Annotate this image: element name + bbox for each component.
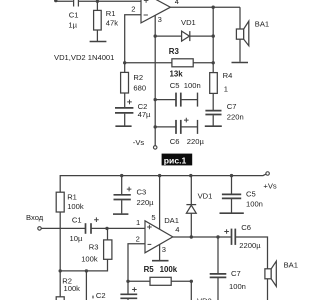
svg-text:220n: 220n: [227, 112, 244, 121]
resistor R3 13k (top circuit): [169, 47, 193, 78]
ground under DA1 pin3: [152, 260, 169, 262]
svg-text:4: 4: [175, 0, 179, 6]
diode VD1 (top circuit): [181, 18, 196, 41]
diode VD1 (bottom circuit): [186, 176, 212, 237]
wire branch diode rail to R3 rail: [212, 36, 214, 63]
wire output branch down to diode rail: [212, 7, 214, 36]
wire input lead to C1: [41, 227, 85, 229]
svg-text:100n: 100n: [229, 282, 246, 291]
svg-text:1µ: 1µ: [68, 21, 77, 30]
diode VD2 lead (cut off): [191, 281, 211, 300]
resistor R2 680 (top circuit): [121, 63, 146, 93]
capacitor C2 47u (top circuit): [115, 93, 151, 126]
wire speaker bottom lead: [267, 279, 269, 300]
resistor R2 100k (bottom circuit): [56, 277, 80, 300]
wire branch down from bias wire: [85, 271, 87, 300]
wire -Vs column lower: [154, 127, 156, 146]
wire R1 top lead: [96, 1, 98, 10]
node VD1 rail junction: [189, 174, 192, 177]
ground under C3: [113, 213, 128, 215]
svg-text:C5: C5: [170, 81, 180, 90]
power terminal -Vs: [133, 138, 157, 149]
node R2 top junction: [59, 269, 62, 272]
wire pin3 lead down: [154, 15, 156, 36]
node C6 left junction: [154, 125, 157, 128]
svg-text:VD1: VD1: [198, 191, 213, 200]
wire R3 rail left lead: [125, 62, 172, 64]
svg-text:рис.1: рис.1: [164, 155, 187, 165]
svg-text:1: 1: [224, 85, 228, 94]
capacitor C1 10u (bottom circuit): [70, 215, 99, 243]
svg-text:100k: 100k: [160, 265, 178, 274]
wire pin3 lead down: [159, 245, 161, 261]
svg-text:2: 2: [131, 4, 135, 13]
svg-text:R3: R3: [169, 47, 180, 56]
op-amp DA1 (bottom circuit): [136, 213, 180, 254]
capacitor C6 220u (top circuit): [155, 118, 204, 146]
ground under R1: [90, 41, 107, 43]
capacitor C5 100n (top circuit): [155, 81, 201, 106]
svg-text:C5: C5: [246, 189, 256, 198]
svg-text:680: 680: [133, 83, 146, 92]
svg-text:R2: R2: [133, 73, 143, 82]
ground under C2: [115, 125, 131, 127]
wire diode rail left segment: [155, 35, 181, 37]
ground under C7: [205, 125, 222, 127]
svg-text:100n: 100n: [246, 199, 263, 208]
capacitor C7 220n (top circuit): [205, 93, 243, 125]
capacitor C1 (top circuit, 1u): [74, 0, 79, 7]
capacitor C6 2200u (bottom circuit): [224, 223, 261, 250]
terminal input Vhod: [26, 213, 44, 230]
node output junction: [190, 235, 193, 238]
node feedback / R5 / C2 junction: [126, 280, 129, 283]
svg-text:C1: C1: [69, 11, 79, 20]
svg-text:C3: C3: [137, 187, 147, 196]
wire bottom circuit +Vs top rail: [60, 174, 266, 192]
svg-text:1: 1: [136, 218, 140, 227]
svg-text:R1: R1: [67, 193, 77, 202]
svg-text:VD2: VD2: [197, 297, 212, 300]
node R3 rail / R4 junction: [212, 61, 215, 64]
node pin5 rail junction: [158, 174, 161, 177]
resistor R3 100k (bottom circuit): [81, 228, 112, 263]
svg-text:C7: C7: [231, 269, 241, 278]
svg-text:5: 5: [151, 213, 155, 222]
svg-text:100n: 100n: [184, 81, 201, 90]
resistor R1 47k (top circuit): [94, 9, 119, 30]
speaker BA1 (top circuit): [236, 7, 269, 46]
node C3 top rail junction: [120, 174, 123, 177]
speaker BA1 (bottom circuit): [265, 260, 298, 286]
wire R3 bottom jog left: [59, 259, 108, 271]
svg-text:VD1,VD2 1N4001: VD1,VD2 1N4001: [54, 53, 114, 62]
node branch junction on bias wire: [85, 269, 88, 272]
node C5 left junction: [154, 98, 157, 101]
power terminal +Vs: [263, 172, 276, 191]
resistor R1 100k (bottom circuit): [56, 192, 84, 212]
capacitor C3 220u (bottom circuit): [114, 176, 155, 214]
svg-text:R4: R4: [223, 71, 233, 80]
svg-text:R1: R1: [106, 9, 116, 18]
svg-text:2: 2: [136, 234, 140, 243]
svg-text:VD1: VD1: [181, 18, 196, 27]
wire -Vs column upper: [154, 36, 156, 100]
wire C1 to DA1 pin1: [91, 227, 145, 229]
capacitor C7 100n (bottom circuit): [210, 237, 246, 300]
wire -Vs column mid: [154, 100, 156, 127]
wire C6 to speaker: [235, 237, 267, 269]
svg-text:47k: 47k: [106, 18, 118, 27]
figure label pic.1: [162, 154, 193, 166]
svg-text:4: 4: [175, 225, 179, 234]
svg-text:3: 3: [162, 245, 166, 254]
svg-text:13k: 13k: [170, 70, 184, 79]
wire output rail pin4: [170, 6, 240, 8]
svg-text:3: 3: [158, 15, 162, 24]
wire R1 bottom to R2 chain: [59, 212, 61, 297]
svg-text:100k: 100k: [67, 202, 84, 211]
svg-text:BA1: BA1: [255, 20, 269, 29]
wire R3 rail right lead: [193, 62, 213, 64]
wire top input rail: [54, 0, 141, 2]
svg-text:-Vs: -Vs: [133, 138, 145, 147]
svg-text:220µ: 220µ: [137, 198, 155, 207]
node C7 branch junction: [216, 235, 219, 238]
node pin3 / diode rail junction: [154, 34, 157, 37]
resistor R4 1 (top circuit): [210, 63, 233, 94]
ground under speaker BA1: [232, 62, 249, 64]
svg-text:Вход: Вход: [26, 213, 44, 222]
svg-text:DA1: DA1: [164, 216, 179, 225]
node C5 rail junction: [230, 174, 233, 177]
wire R1 bottom lead: [96, 30, 98, 41]
capacitor C2 (bottom circuit): [96, 281, 137, 300]
svg-text:C6: C6: [170, 137, 180, 146]
wire pin2 inverting input + feedback drop: [125, 15, 141, 63]
svg-text:C6: C6: [241, 223, 251, 232]
capacitor C5 100n (bottom circuit): [222, 176, 263, 213]
svg-text:47µ: 47µ: [138, 110, 151, 119]
text small mark near C2: [92, 296, 94, 299]
svg-text:100k: 100k: [81, 254, 98, 263]
node input / R3 junction: [105, 227, 108, 230]
text diode type note: [54, 53, 114, 62]
svg-text:C2: C2: [96, 291, 106, 300]
wire output rail to C6: [173, 236, 232, 238]
svg-text:C7: C7: [227, 102, 237, 111]
svg-text:100k: 100k: [64, 284, 81, 293]
svg-text:BA1: BA1: [284, 260, 298, 269]
svg-text:220µ: 220µ: [187, 137, 205, 146]
node top rail / R1 junction: [96, 0, 99, 3]
op-amp U1 (top circuit): [131, 0, 179, 24]
svg-text:R5: R5: [144, 265, 155, 274]
svg-text:+Vs: +Vs: [263, 181, 276, 190]
svg-text:C1: C1: [72, 215, 82, 224]
wire speaker bottom lead: [239, 39, 241, 62]
node R5 right / VD2 junction: [190, 280, 193, 283]
svg-text:10µ: 10µ: [70, 234, 83, 243]
svg-text:R3: R3: [89, 242, 99, 251]
ground under C5: [220, 212, 244, 214]
node output rail branch: [212, 6, 215, 9]
resistor R5 100k (bottom circuit feedback): [128, 265, 191, 285]
svg-text:2200µ: 2200µ: [239, 241, 261, 250]
node diode rail / R4 column junction: [212, 34, 215, 37]
wire pin2 inverting input + feedback drop: [128, 244, 145, 281]
wire pin5 supply lead: [159, 176, 161, 230]
node feedback / R2 / R3 junction: [123, 61, 126, 64]
wire diode rail right segment: [190, 35, 213, 37]
